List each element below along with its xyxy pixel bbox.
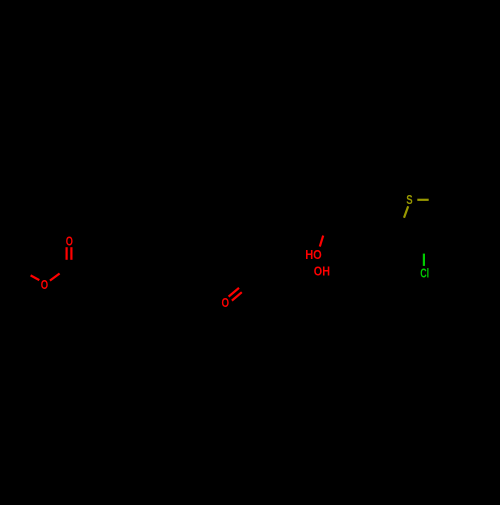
ester carbonyl C=O double bond (red) <box>65 247 67 260</box>
svg-text:HO: HO <box>305 248 322 262</box>
S-C5 half-bond (S side, dark yellow) <box>417 199 428 201</box>
svg-text:O: O <box>41 278 49 292</box>
svg-text:O: O <box>222 296 230 310</box>
ester methyl half-bond (O side, red) <box>31 275 40 280</box>
S-C2 half-bond (S side, dark yellow) <box>404 206 408 218</box>
svg-text:O: O <box>66 234 73 248</box>
svg-text:S: S <box>406 193 412 207</box>
wire: carbon skeleton chain (black on black, invisible in source) <box>24 200 448 290</box>
svg-text:Cl: Cl <box>420 267 429 281</box>
hydroxyl HO-C half-bond (O side, red) <box>320 236 323 247</box>
svg-text:OH: OH <box>314 265 330 279</box>
C3-Cl half-bond (Cl side, green) <box>423 254 425 266</box>
ketone C=O double bond (red) <box>229 288 239 297</box>
ester O-C(=O) half-bond (O side, red) <box>50 274 60 281</box>
